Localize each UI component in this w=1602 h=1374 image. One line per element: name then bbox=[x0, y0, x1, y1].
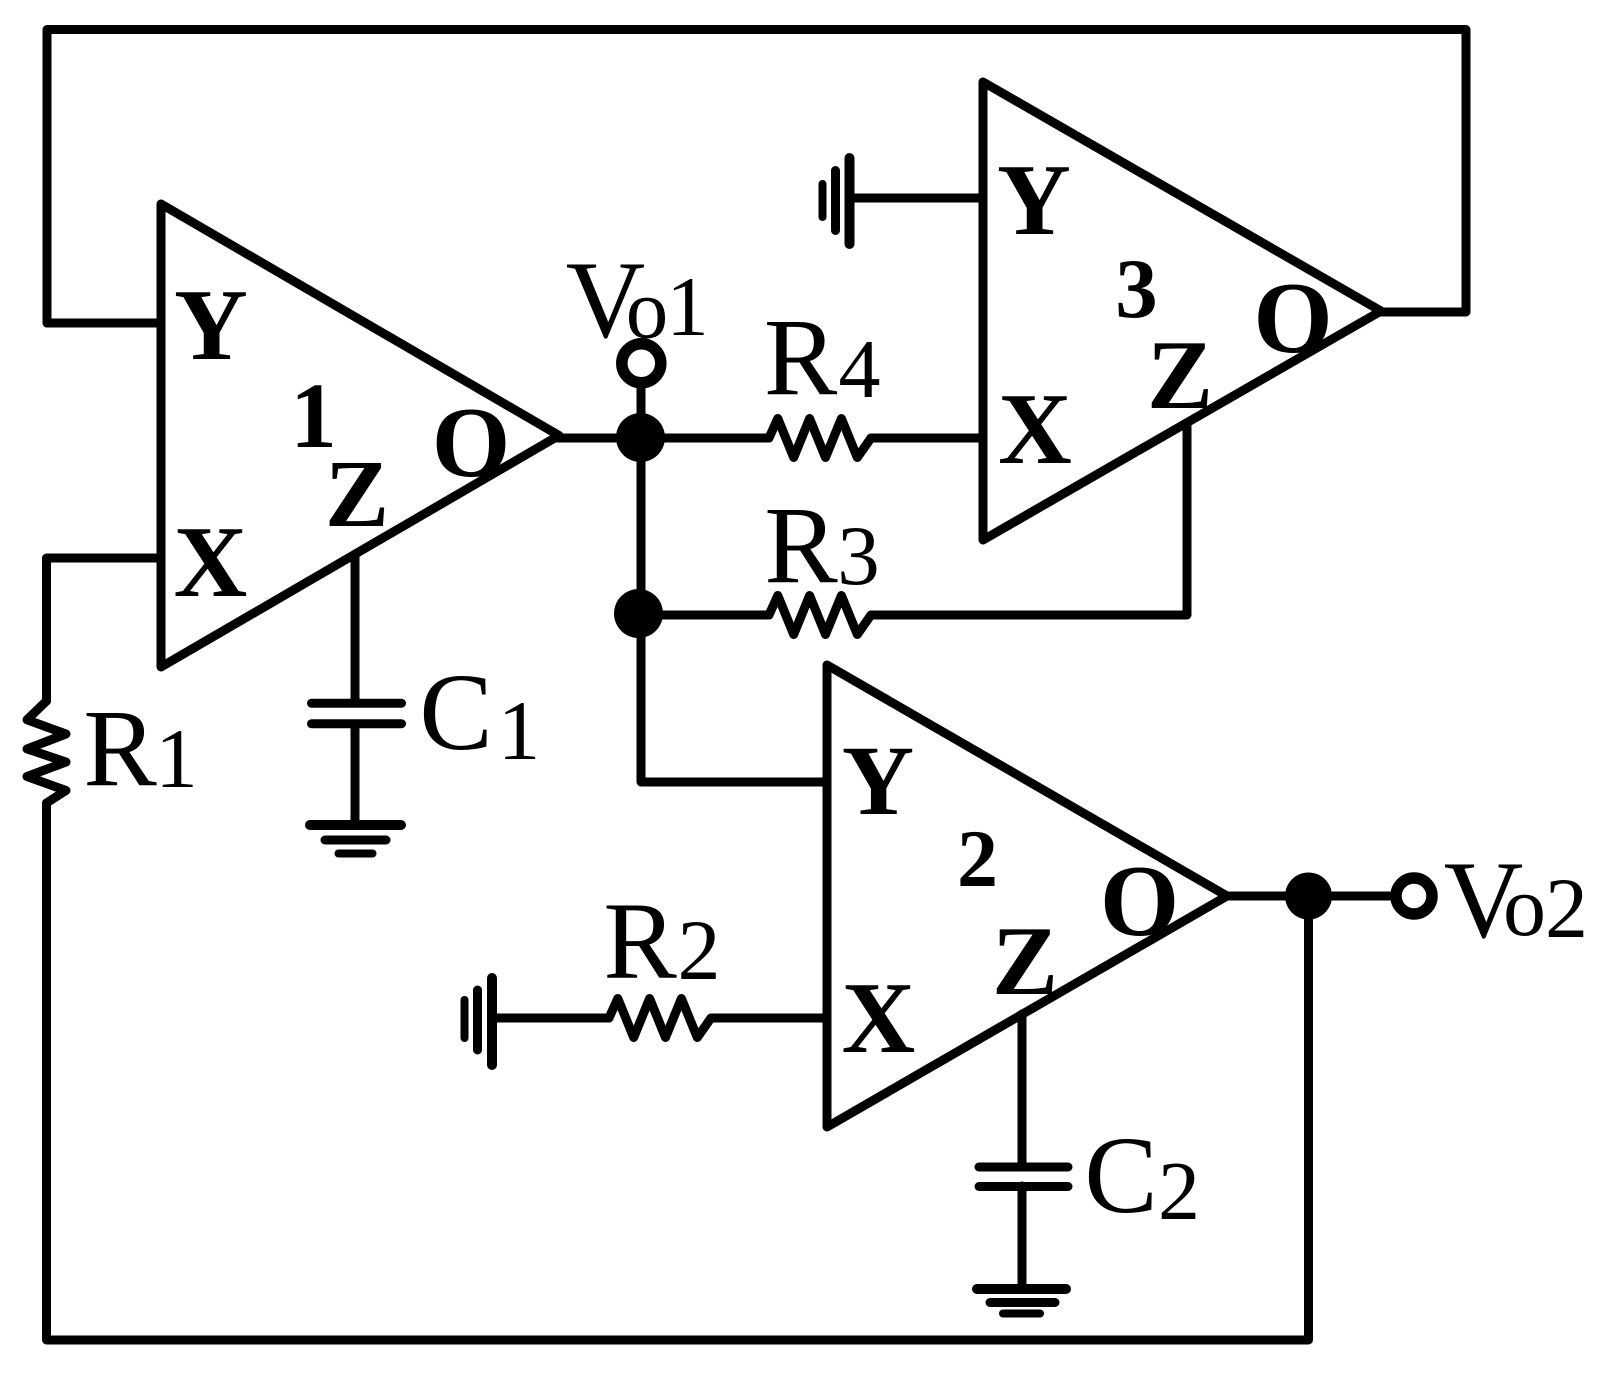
svg-text:Y: Y bbox=[174, 269, 248, 382]
svg-text:X: X bbox=[998, 373, 1072, 486]
svg-text:O: O bbox=[1100, 845, 1179, 958]
svg-text:R: R bbox=[764, 484, 838, 606]
svg-text:1: 1 bbox=[498, 684, 541, 778]
svg-text:o: o bbox=[1503, 858, 1546, 954]
svg-text:Z: Z bbox=[992, 907, 1058, 1016]
svg-text:Y: Y bbox=[997, 144, 1071, 257]
svg-text:2: 2 bbox=[1158, 1145, 1200, 1238]
svg-text:Z: Z bbox=[325, 440, 389, 547]
svg-text:Z: Z bbox=[1147, 321, 1213, 430]
svg-text:2: 2 bbox=[957, 813, 998, 904]
svg-text:R: R bbox=[83, 687, 157, 809]
svg-text:O: O bbox=[432, 386, 511, 498]
svg-text:C: C bbox=[419, 651, 492, 773]
svg-text:1: 1 bbox=[666, 260, 709, 354]
svg-text:4: 4 bbox=[839, 323, 881, 416]
svg-text:X: X bbox=[842, 962, 916, 1075]
svg-text:o: o bbox=[626, 263, 669, 357]
svg-text:2: 2 bbox=[1545, 860, 1588, 956]
svg-text:Y: Y bbox=[842, 725, 914, 836]
svg-text:X: X bbox=[174, 506, 248, 619]
svg-text:R: R bbox=[764, 296, 838, 418]
svg-text:R: R bbox=[603, 880, 677, 1002]
svg-text:C: C bbox=[1084, 1114, 1157, 1236]
svg-text:3: 3 bbox=[837, 509, 880, 603]
svg-text:2: 2 bbox=[678, 902, 721, 998]
svg-text:1: 1 bbox=[155, 712, 198, 806]
svg-text:O: O bbox=[1253, 262, 1332, 375]
